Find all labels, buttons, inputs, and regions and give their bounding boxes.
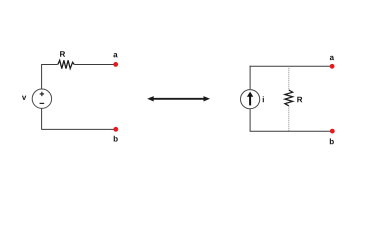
wire: left circuit, top rail from resistor to node a [74,64,114,66]
wire: left circuit, vertical from voltage source bottom to bottom rail [41,108,43,129]
label R (right resistor value) [297,97,302,103]
label a (left circuit) [113,53,117,57]
wire: right circuit, current source branch vertical top [249,66,251,90]
label b (right circuit) [330,138,334,144]
voltage source V (left circuit) [32,89,51,108]
label a (right circuit) [330,56,334,60]
label i (current source) [263,96,264,102]
wire: left circuit, vertical from voltage source top to top rail [41,65,43,90]
equivalence arrow (double-headed) [147,96,210,101]
node a (left circuit terminal, red) [113,62,118,67]
wire: left circuit, top rail from corner to resistor [41,64,57,66]
node a (right circuit terminal, red) [330,64,335,69]
wire: right circuit, resistor branch lead bottom (faint dotted) [288,106,290,131]
wire: right circuit, top rail [250,65,331,67]
wire: right circuit, resistor branch lead top (faint dotted) [288,66,290,90]
wire: right circuit, bottom rail [250,130,331,132]
wire: right circuit, current source branch vertical bottom [249,109,251,132]
wire: left circuit, bottom rail to node b [41,128,114,130]
current source I (right circuit) [241,90,260,109]
label R (left resistor value) [60,51,65,57]
node b (left circuit terminal, red) [113,127,118,132]
resistor R (series, left circuit) [58,60,75,68]
label b (left circuit) [114,136,118,142]
resistor R (shunt, right circuit) [285,90,293,106]
label v (voltage source) [22,96,26,100]
node b (right circuit terminal, red) [330,129,335,134]
